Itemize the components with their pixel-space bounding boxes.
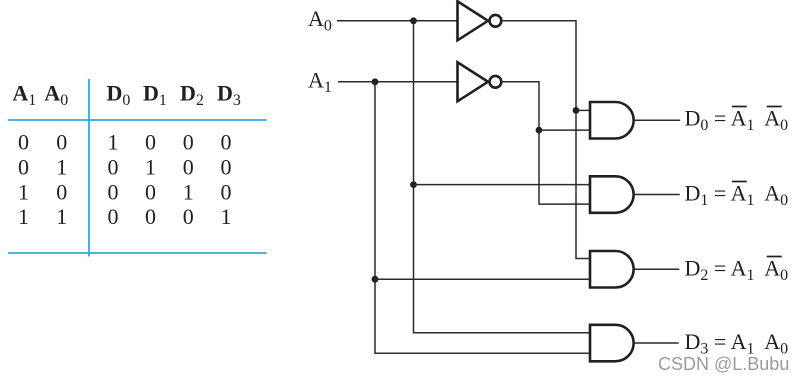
svg-text:100010: 100010 [18,179,232,204]
NOT gate inverter for A0 [458,1,489,40]
AND gate D1 [590,176,634,213]
junction A1 branch [372,78,379,85]
wire A0' output to D2 top input [503,21,589,259]
svg-text:010100: 010100 [18,155,232,180]
wire A1 vertical to D3 bottom input [375,82,589,353]
svg-text:A0: A0 [308,6,332,35]
wire A0 input [337,20,458,22]
wire A0' branch to D0 top input [576,109,589,111]
inverter A0 bubble [490,15,502,27]
svg-text:D2 = A1 A0: D2 = A1 A0 [685,255,789,284]
svg-text:A0: A0 [44,80,68,109]
truth table column divider [88,79,90,257]
wire A1' output to D1 bottom input [503,82,589,204]
overbar on A1 in D1 equation [732,181,747,183]
svg-text:001000: 001000 [18,130,232,155]
AND gate D0 [590,102,634,139]
svg-text:D3: D3 [217,80,241,109]
wire D1 output [634,194,680,196]
junction A0' to D0 [573,107,580,114]
svg-text:D2: D2 [180,80,204,109]
truth table bottom rule [8,252,267,254]
truth table top rule [8,119,267,121]
svg-text:D0: D0 [107,80,131,109]
wire D3 output [634,342,679,344]
AND gate D3 [590,325,634,362]
wire A0 vertical to D3 top input [414,21,590,333]
wire A1 branch to D2 bottom input [375,278,589,280]
junction A0 to D1 [410,181,417,188]
wire D0 output [634,119,680,121]
inverter A1 bubble [490,76,502,88]
junction A0 branch [410,17,417,24]
svg-text:D0 = A1 A0: D0 = A1 A0 [685,105,789,134]
wire A1' branch to D0 bottom input [539,129,589,131]
AND gate D2 [590,251,634,288]
svg-text:D1: D1 [143,80,167,109]
junction A1 to D2 [372,276,379,283]
overbar on A0 in D0 equation [767,106,782,108]
svg-text:110001: 110001 [18,204,232,229]
svg-text:A1: A1 [12,80,36,109]
svg-text:CSDN @L.Bubu: CSDN @L.Bubu [658,354,789,374]
wire A1 input [338,81,458,83]
wire D2 output [634,268,680,270]
overbar on A0 in D2 equation [767,256,782,258]
junction A1' to D0 [536,127,543,134]
svg-text:A1: A1 [308,67,332,96]
svg-text:D1 = A1 A0: D1 = A1 A0 [685,180,789,209]
overbar on A1 in D0 equation [732,106,747,108]
wire A0 branch to D1 top input [414,184,590,186]
NOT gate inverter for A1 [458,62,489,101]
